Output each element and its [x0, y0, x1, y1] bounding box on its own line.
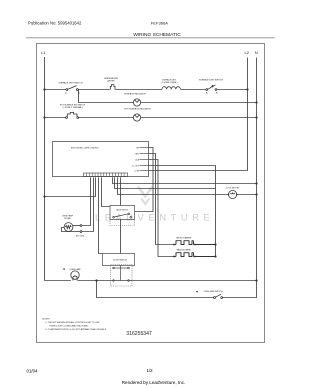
watermark logo V: [138, 187, 153, 205]
hot surface indicator lamp: [133, 114, 140, 121]
wire rail A: [45, 89, 67, 91]
wire drop railA to railB: [79, 90, 134, 103]
svg-text:PROBE: PROBE: [64, 218, 71, 220]
surface unit coil: [162, 87, 180, 90]
svg-text:WIRING SCHEMATIC: WIRING SCHEMATIC: [133, 32, 181, 38]
door switch box: [103, 254, 135, 266]
oven lamp switch: [214, 294, 223, 298]
EOC right pin wires: [135, 148, 216, 257]
svg-text:RTD 1096: RTD 1096: [76, 236, 84, 238]
svg-text:LATCH SWITCH: LATCH SWITCH: [116, 208, 129, 211]
door switch dashed box: [111, 265, 133, 287]
svg-text:1/2: 1/2: [147, 368, 154, 373]
svg-text:01/04: 01/04: [27, 368, 39, 373]
svg-text:✱: ✱: [63, 268, 65, 271]
svg-text:1. CIRCUIT SHOWN WITH ALL CON: 1. CIRCUIT SHOWN WITH ALL CONTROLS SET T…: [45, 321, 100, 324]
wire L1 to EOC pin: [45, 177, 96, 196]
header rule: [26, 37, 275, 39]
latch switch box: [110, 206, 135, 220]
svg-text:OVEN LAMP SWITCH: OVEN LAMP SWITCH: [204, 290, 224, 293]
wire rail C: [45, 117, 67, 119]
wire to latch box top: [120, 177, 122, 205]
wire rail to N: [113, 177, 257, 183]
surface unit switch SW2: [206, 85, 217, 91]
svg-text:FEF366A: FEF366A: [151, 21, 168, 26]
oven lamp switch branch: [97, 281, 257, 298]
wire N bus: [256, 58, 258, 281]
svg-text:L2: L2: [245, 50, 250, 55]
svg-text:BAKE ELEMENT: BAKE ELEMENT: [177, 248, 192, 251]
svg-text:DLB: DLB: [135, 159, 139, 161]
wire BRL pin to broil: [149, 154, 174, 245]
svg-text:OVEN LAMP: OVEN LAMP: [70, 268, 82, 271]
svg-text:2. COMPONENTS WITH -||- DO: 2. COMPONENTS WITH -||- DO NOT APPEAR ON…: [45, 328, 107, 331]
wire latch to door switch: [120, 220, 122, 254]
wire sensor lower: [82, 177, 94, 231]
oven lamp rail: [45, 280, 257, 282]
svg-text:SURFACE UNIT SWITCH: SURFACE UNIT SWITCH: [199, 79, 223, 82]
svg-text:OVEN DOOR CLOSED AND UNLOCKED.: OVEN DOOR CLOSED AND UNLOCKED.: [49, 325, 89, 328]
wire to latch box left: [102, 177, 111, 206]
svg-text:( 2 SOME 4 THERMAL ): ( 2 SOME 4 THERMAL ): [62, 106, 83, 109]
svg-text:P1: P1: [65, 93, 67, 95]
svg-text:H2: H2: [216, 93, 218, 95]
notes: [42, 318, 107, 331]
main border box: [37, 44, 265, 343]
svg-text:✱: ✱: [196, 290, 198, 293]
wire lock motor rail right: [237, 194, 257, 196]
svg-text:SURFACE INDICATOR: SURFACE INDICATOR: [124, 92, 146, 95]
svg-text:SURFACE UNIT SWITCH: SURFACE UNIT SWITCH: [59, 81, 83, 84]
svg-text:N: N: [255, 50, 258, 55]
wire L1 OUT pin: [149, 166, 216, 257]
svg-text:LIMITER: LIMITER: [107, 81, 115, 83]
EOC bottom harness wires: [82, 177, 257, 253]
surface indicator lamp: [133, 99, 140, 106]
svg-text:L1: L1: [41, 50, 46, 55]
surface unit switch SW1: [66, 86, 78, 91]
latch box dashed extension: [110, 220, 135, 226]
svg-text:ELECTRONIC OVEN CONTROL: ELECTRONIC OVEN CONTROL: [71, 147, 99, 149]
wire DLB pin to bake: [149, 160, 174, 257]
wire rail B right: [141, 102, 257, 104]
svg-text:BRL: BRL: [135, 153, 139, 155]
svg-text:L2 IN: L2 IN: [134, 170, 139, 172]
EOC connector strip: [84, 173, 128, 177]
svg-text:Publication No: 5995401642: Publication No: 5995401642: [28, 21, 82, 26]
wire sensor upper: [82, 177, 91, 225]
temperature limiter: [110, 85, 115, 90]
hot surface ind switch: [66, 112, 79, 118]
svg-text:Rendered by LeadVenture, Inc.: Rendered by LeadVenture, Inc.: [122, 380, 186, 385]
wire BK pin: [135, 148, 154, 212]
svg-text:BK: BK: [136, 147, 139, 149]
electronic oven control box: [53, 142, 149, 177]
svg-text:HOT SURFACE INDICATOR: HOT SURFACE INDICATOR: [124, 107, 151, 110]
lock motor: [229, 190, 237, 198]
wire L2 bus: [149, 58, 248, 171]
svg-text:DOOR SWITCH: DOOR SWITCH: [113, 260, 127, 262]
wire lock motor rail left: [118, 177, 229, 194]
wire L1 bus: [44, 57, 46, 281]
oven lamp: [71, 271, 79, 281]
svg-text:( 2 SOME 4 WIRE ): ( 2 SOME 4 WIRE ): [161, 82, 178, 84]
svg-text:P2: P2: [78, 93, 80, 95]
wire to door switch: [99, 177, 103, 253]
svg-text:316255347: 316255347: [126, 331, 152, 337]
svg-text:L1 OUT: L1 OUT: [132, 165, 139, 167]
svg-text:BROIL ELEMENT: BROIL ELEMENT: [176, 237, 192, 239]
svg-text:LOCK MOTOR: LOCK MOTOR: [226, 188, 239, 190]
EOC pin labels: [132, 147, 139, 172]
wire rail to latch right: [115, 177, 216, 188]
svg-text:H1: H1: [206, 93, 208, 95]
svg-text:NOTES:: NOTES:: [42, 318, 50, 320]
